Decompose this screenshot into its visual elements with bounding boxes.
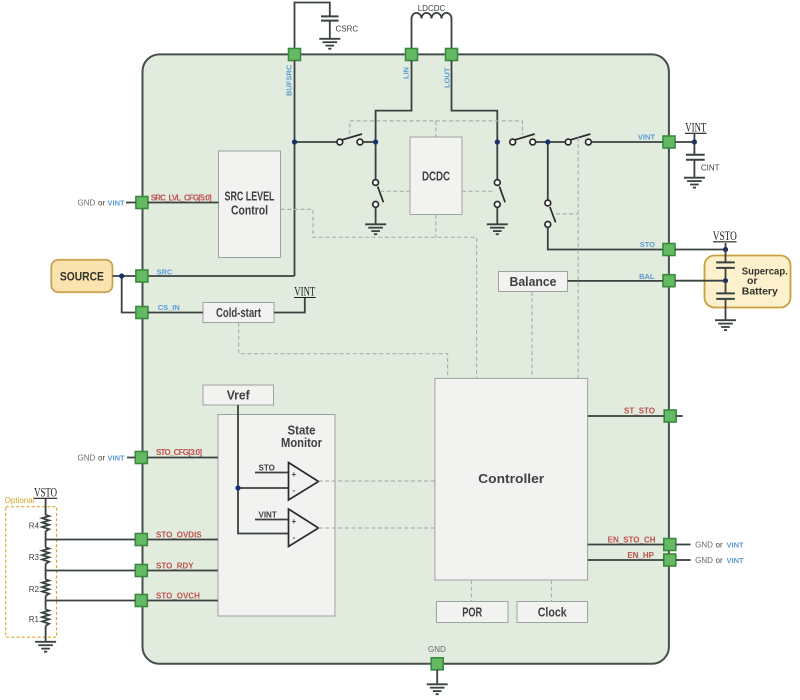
dashed stub to S6 lever: [556, 213, 578, 215]
dashed control rail (switches): [350, 121, 523, 135]
svg-text:EN_HP: EN_HP: [627, 551, 654, 560]
pin STO: [663, 244, 675, 256]
block Clock: [517, 602, 588, 623]
svg-text:or: or: [716, 540, 723, 549]
pin SRC: [136, 270, 148, 282]
svg-text:ST_STO: ST_STO: [624, 407, 655, 416]
dashed Controller to Clock: [551, 580, 553, 601]
node VSTO: [723, 247, 728, 252]
svg-text:LIN: LIN: [402, 67, 411, 79]
comparator 1 (STO): [255, 463, 319, 501]
svg-text:-: -: [293, 486, 296, 495]
node BAL junction: [723, 278, 728, 283]
label GND or VINT (left, STO_CFG): [78, 453, 136, 462]
pin VINT: [663, 136, 675, 148]
svg-text:Vref: Vref: [227, 387, 251, 402]
capacitor CINT: [686, 142, 720, 177]
pin BAL: [663, 275, 675, 287]
svg-text:BUFSRC: BUFSRC: [285, 64, 294, 96]
svg-text:VINT: VINT: [259, 511, 277, 520]
wire LIN down-left to rail: [376, 61, 412, 143]
svg-text:GND: GND: [695, 556, 713, 565]
pin STO_RDY: [135, 565, 147, 577]
node VINT ext: [692, 139, 697, 144]
svg-text:Battery: Battery: [742, 286, 778, 298]
optional dashed box: [6, 507, 57, 638]
svg-text:VINT: VINT: [294, 285, 315, 299]
svg-text:STO_CFG[3:0]: STO_CFG[3:0]: [156, 448, 202, 457]
svg-text:-: -: [293, 533, 296, 542]
ground (divider): [35, 642, 56, 652]
dashed control S6/S3 from controller: [577, 138, 579, 379]
wire tap STO_OVCH: [46, 596, 136, 601]
block SOURCE: [51, 260, 112, 292]
label VSTO (left): [34, 486, 57, 500]
svg-text:CSRC: CSRC: [336, 25, 359, 34]
svg-text:Control: Control: [231, 203, 268, 218]
wire Vref down: [237, 405, 239, 488]
svg-text:Controller: Controller: [478, 471, 544, 486]
svg-text:POR: POR: [462, 605, 482, 620]
comparator 2 (VINT): [255, 509, 319, 547]
switch S6 vertical to STO: [545, 142, 556, 227]
block Balance: [499, 272, 568, 292]
wire BUFSRC to CSRC: [295, 3, 330, 49]
svg-text:VINT: VINT: [685, 121, 706, 135]
resistor R1: [29, 601, 49, 626]
label VSTO (right): [713, 229, 737, 250]
ground (supercap): [715, 320, 736, 330]
svg-text:VSTO: VSTO: [34, 486, 57, 500]
wire S6 to STO pin: [548, 227, 663, 249]
pin CS_IN: [136, 307, 148, 319]
node vref junction: [235, 485, 240, 490]
wire Cold-start to VINT: [274, 298, 305, 313]
pin STO_CFG[3:0]: [135, 452, 147, 464]
svg-text:VINT: VINT: [727, 540, 745, 549]
dashed S4 lever to DCDC: [380, 190, 410, 192]
switch S1 (BUFSRC-LIN): [337, 134, 363, 145]
wire VINT rail: [295, 141, 337, 143]
pin STO_OVDIS: [135, 534, 147, 546]
resistor R3: [29, 540, 49, 564]
svg-text:R3: R3: [29, 553, 40, 562]
dashed Controller to POR: [471, 580, 473, 601]
wire BUFSRC down to rail: [294, 61, 296, 277]
svg-text:+: +: [292, 470, 297, 479]
svg-text:GND: GND: [695, 540, 713, 549]
wire SOURCE split down to CS_IN: [122, 276, 136, 313]
svg-text:or: or: [98, 198, 105, 207]
ground (S5): [487, 224, 508, 234]
svg-text:BAL: BAL: [639, 272, 655, 281]
svg-text:Balance: Balance: [510, 274, 557, 289]
svg-text:LOUT: LOUT: [443, 67, 452, 88]
pin LIN: [406, 49, 418, 61]
wire tap STO_OVDIS: [46, 531, 136, 539]
svg-text:Clock: Clock: [538, 605, 568, 620]
svg-text:LDCDC: LDCDC: [418, 4, 446, 13]
wire vref to comp1 minus: [238, 487, 288, 489]
svg-text:DCDC: DCDC: [422, 169, 450, 184]
ground (GND pin): [427, 684, 448, 694]
svg-text:CINT: CINT: [701, 164, 720, 173]
dashed DCDC bottom stub: [435, 215, 437, 238]
pin BUFSRC: [289, 49, 301, 61]
svg-text:VINT: VINT: [638, 133, 656, 142]
svg-text:GND: GND: [428, 645, 446, 654]
label VINT (cold-start): [294, 285, 316, 299]
svg-text:R1: R1: [29, 615, 40, 624]
svg-text:VINT: VINT: [727, 556, 745, 565]
dashed Cold-start to controller: [239, 323, 448, 379]
pin EN_STO_CH: [664, 539, 676, 551]
switch S5 vertical under LOUT node: [494, 142, 505, 224]
svg-text:STO: STO: [259, 464, 275, 473]
svg-text:R4: R4: [29, 522, 40, 531]
capacitor CSRC: [321, 16, 358, 38]
node BUFSRC junction: [292, 139, 297, 144]
pin STO_OVCH: [135, 595, 147, 607]
svg-text:STO_OVDIS: STO_OVDIS: [156, 530, 202, 539]
block DCDC: [410, 137, 462, 215]
block State Monitor: [218, 415, 335, 617]
svg-text:+: +: [292, 517, 297, 526]
pin GND: [431, 658, 443, 670]
wire SOURCE to SRC pin: [113, 275, 136, 277]
supercap cell 1: [716, 250, 735, 281]
svg-text:VINT: VINT: [108, 198, 126, 207]
ground (CINT): [684, 178, 705, 188]
node SOURCE junction: [119, 273, 124, 278]
switch S2 (LOUT-node): [510, 134, 536, 145]
wire VINT pin to CINT node: [675, 141, 694, 143]
wire GND to ground: [436, 670, 438, 684]
svg-text:SRC_LVL_CFG[5:0]: SRC_LVL_CFG[5:0]: [151, 194, 212, 203]
node LOUT junction: [495, 139, 500, 144]
supercap cell 2: [716, 281, 735, 320]
dashed SRC LEVEL to controller: [281, 209, 477, 378]
label VINT (external): [685, 121, 707, 143]
wire LOUT down-right to rail: [452, 61, 498, 143]
wire CS_IN to Cold-start: [148, 312, 203, 314]
block Controller: [435, 378, 588, 580]
svg-text:or: or: [98, 453, 105, 462]
wire Balance to BAL pin: [568, 280, 664, 282]
dashed DCDC to S5 lever: [462, 190, 494, 192]
ground (CSRC): [319, 39, 340, 49]
svg-text:SOURCE: SOURCE: [60, 270, 104, 284]
switch S3 (node-VINT): [565, 134, 591, 145]
svg-text:R2: R2: [29, 585, 40, 594]
ground (S4): [365, 224, 386, 234]
wire BAL to supercap node: [675, 280, 726, 282]
main IC body: [143, 54, 669, 663]
label GND or VINT (left, SRC_LVL_CFG): [78, 198, 136, 207]
svg-text:or: or: [716, 556, 723, 565]
wire: [536, 141, 566, 143]
label GND or VINT (EN_HP): [676, 556, 744, 565]
svg-text:STO_OVCH: STO_OVCH: [156, 591, 200, 600]
pin SRC_LVL_CFG[5:0]: [136, 197, 148, 209]
node STO-switch junction: [545, 139, 550, 144]
block Vref: [203, 385, 274, 405]
block POR: [437, 602, 509, 623]
pin ST_STO: [664, 410, 676, 422]
svg-text:VINT: VINT: [108, 453, 126, 462]
inductor LDCDC: [412, 4, 452, 49]
label GND or VINT (EN_STO_CH): [676, 540, 744, 549]
wire to VINT pin: [591, 141, 663, 143]
svg-text:SRC LEVEL: SRC LEVEL: [225, 189, 275, 204]
block Cold-start: [203, 303, 274, 323]
wire R1 to ground: [45, 626, 47, 642]
svg-text:STO_RDY: STO_RDY: [156, 561, 194, 570]
wire vref to comp2 minus: [238, 488, 288, 534]
dashed comparator1 output: [319, 480, 435, 482]
wire tap STO_RDY: [46, 564, 136, 571]
svg-text:STO: STO: [640, 240, 655, 249]
resistor R2: [29, 571, 49, 596]
pin LOUT: [446, 49, 458, 61]
node LIN junction: [373, 139, 378, 144]
dashed stub DCDC top: [435, 121, 437, 137]
svg-text:Optional: Optional: [5, 496, 35, 505]
pin EN_HP: [664, 554, 676, 566]
dashed Balance to controller: [531, 292, 533, 379]
wire: [363, 141, 376, 143]
svg-text:Monitor: Monitor: [281, 435, 322, 450]
wire STO pin to VSTO node: [675, 249, 726, 251]
block SRC LEVEL Control: [219, 151, 281, 258]
resistor R4: [29, 498, 49, 531]
svg-text:EN_STO_CH: EN_STO_CH: [608, 535, 656, 544]
svg-text:VSTO: VSTO: [713, 229, 737, 243]
svg-text:GND: GND: [78, 453, 96, 462]
svg-text:Cold-start: Cold-start: [216, 305, 261, 320]
dashed comparator2 output: [319, 527, 435, 529]
switch S4 vertical under LIN node: [373, 142, 384, 224]
svg-text:SRC: SRC: [157, 267, 173, 276]
wire SRC to rail riser: [148, 275, 295, 277]
svg-text:GND: GND: [78, 198, 96, 207]
svg-text:CS_IN: CS_IN: [158, 303, 180, 312]
block Supercap or Battery: [705, 256, 791, 308]
